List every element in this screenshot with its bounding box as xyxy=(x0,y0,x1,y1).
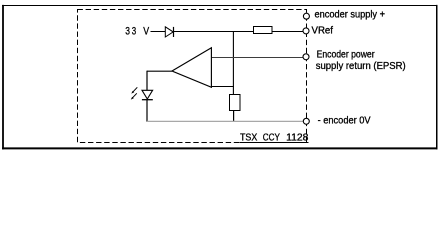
svg-text:1128: 1128 xyxy=(286,133,309,144)
svg-text:CCY: CCY xyxy=(263,133,280,144)
svg-text:supply return (EPSR): supply return (EPSR) xyxy=(316,61,406,72)
svg-text:TSX: TSX xyxy=(240,133,258,144)
svg-text:VRef: VRef xyxy=(312,26,334,37)
svg-text:33V: 33V xyxy=(125,26,150,38)
svg-text:encoder supply +: encoder supply + xyxy=(315,10,386,21)
svg-text:- encoder 0V: - encoder 0V xyxy=(318,116,371,127)
svg-text:Encoder power: Encoder power xyxy=(317,50,376,61)
